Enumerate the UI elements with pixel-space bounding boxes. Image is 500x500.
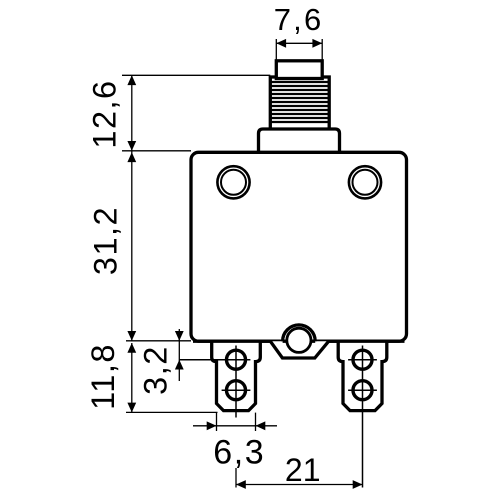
left terminal upper hole (227, 350, 246, 369)
thread ribs on neck (271, 82, 328, 122)
push button cap (276, 61, 322, 79)
svg-text:21: 21 (285, 452, 321, 488)
extension line at neck top (12,6 upper) (122, 74, 270, 76)
left spade terminal (212, 341, 261, 410)
left terminal vertical center line (235, 346, 237, 418)
body bottom edge inside boss bump (283, 340, 316, 343)
body bottom edge (193, 340, 405, 343)
right terminal upper hole (353, 350, 372, 369)
dimension line 31,2 (131, 151, 133, 341)
dimension line 21 (236, 484, 363, 486)
svg-text:12,6: 12,6 (87, 79, 123, 148)
center boss bump arc (283, 325, 316, 341)
right terminal vertical center line (362, 346, 364, 488)
left terminal lower hole (227, 381, 246, 400)
extension line at body bottom (31,2 lower / 11,8 upper) (126, 340, 191, 342)
mounting flange nut (259, 129, 340, 155)
svg-text:6,3: 6,3 (213, 434, 265, 472)
dimension line 7,6 (276, 42, 322, 44)
svg-text:3,2: 3,2 (138, 345, 174, 395)
extension lines for 7,6 (275, 39, 277, 60)
left rivet outer circle (217, 166, 249, 198)
extension line at body top (12,6 lower / 31,2 upper) (122, 150, 191, 152)
svg-text:31,2: 31,2 (87, 206, 123, 275)
right rivet inner circle (353, 170, 378, 195)
threaded neck of push button (270, 77, 329, 131)
right terminal upper hole cross line (348, 359, 377, 361)
dimension line 3,2 (178, 329, 180, 381)
extension line for 21 (left) (235, 468, 237, 488)
svg-text:7,6: 7,6 (274, 2, 324, 37)
dimension line 11,8 (131, 343, 133, 412)
right spade terminal (338, 341, 387, 410)
center boss trapezoid (270, 341, 328, 358)
right terminal lower hole (353, 381, 372, 400)
left rivet inner circle (221, 170, 246, 195)
breaker body (191, 152, 407, 341)
svg-text:11,8: 11,8 (85, 343, 121, 410)
left terminal upper hole cross line (with 3,2 extension) (179, 359, 250, 361)
right terminal lower hole cross line (348, 389, 377, 391)
dimension line 6,3 (193, 425, 277, 427)
extension line at terminal bottom (11,8 lower) (126, 411, 218, 413)
extension lines for 6,3 (216, 413, 218, 431)
right rivet outer circle (349, 166, 381, 198)
left terminal lower hole cross line (222, 389, 251, 391)
center boss hole circle (287, 328, 311, 352)
dimension line 12,6 (131, 75, 133, 151)
